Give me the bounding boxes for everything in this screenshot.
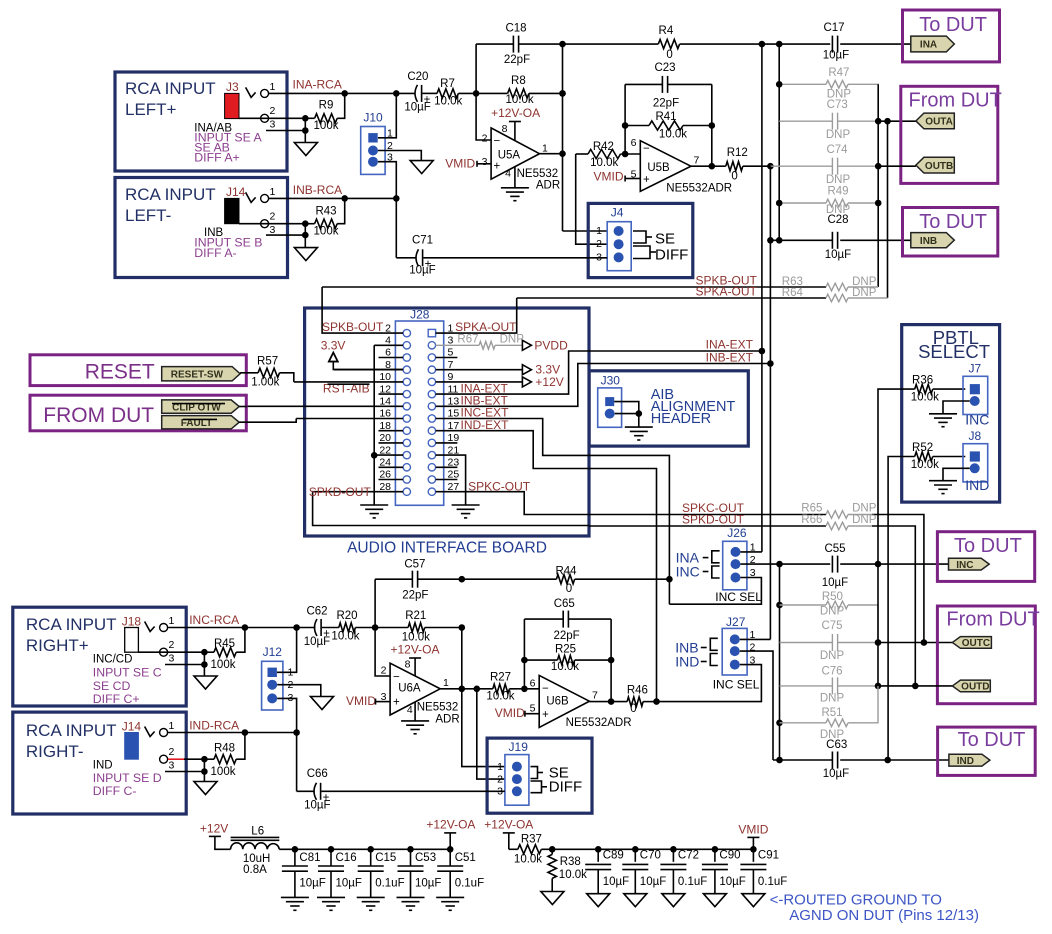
svg-text:1: 1 (596, 225, 602, 237)
capacitor C72 (672, 849, 674, 862)
svg-text:0: 0 (630, 703, 636, 715)
wire U5A output (540, 153, 563, 155)
svg-text:C18: C18 (505, 23, 526, 35)
svg-text:1: 1 (169, 720, 175, 732)
svg-text:J19: J19 (509, 740, 529, 754)
ground below R48 (194, 782, 217, 795)
J28 pin 19 stub (436, 442, 458, 444)
svg-text:0.1uF: 0.1uF (678, 876, 707, 888)
wire VMID rail (598, 848, 753, 850)
svg-text:R21: R21 (405, 610, 426, 622)
svg-text:RCA INPUT: RCA INPUT (26, 615, 117, 634)
svg-text:4: 4 (505, 167, 511, 179)
svg-text:R67: R67 (457, 333, 478, 345)
svg-text:25: 25 (448, 469, 460, 481)
svg-text:LEFT+: LEFT+ (125, 100, 177, 119)
svg-text:C71: C71 (412, 235, 433, 247)
svg-text:R49: R49 (827, 186, 848, 198)
svg-text:IND-EXT: IND-EXT (461, 418, 510, 432)
ground below R9 (294, 143, 317, 156)
svg-text:+12V: +12V (535, 375, 563, 389)
svg-text:SELECT: SELECT (918, 341, 990, 362)
svg-text:−: − (643, 143, 650, 155)
svg-text:+: + (542, 709, 549, 721)
flag INC to DUT (949, 558, 990, 570)
svg-text:24: 24 (379, 457, 391, 469)
svg-text:10µF: 10µF (415, 878, 441, 890)
svg-text:U5A: U5A (498, 150, 521, 162)
box AIB ALIGNMENT HEADER (589, 371, 748, 446)
svg-text:10.0k: 10.0k (434, 96, 462, 108)
svg-text:10.0k: 10.0k (514, 854, 542, 866)
svg-text:NE5532ADR: NE5532ADR (666, 183, 732, 195)
wire R36 down rail to C55 node (878, 389, 915, 564)
svg-text:21: 21 (448, 444, 460, 456)
svg-text:INB-EXT: INB-EXT (706, 350, 754, 364)
svg-text:DIFF A+: DIFF A+ (194, 150, 239, 164)
wire INB-RCA (269, 197, 397, 199)
svg-text:10.0k: 10.0k (551, 661, 579, 673)
svg-text:VMID: VMID (445, 156, 475, 170)
box PBTL SELECT (902, 325, 1000, 503)
svg-text:10.0k: 10.0k (486, 691, 514, 703)
svg-text:HEADER: HEADER (651, 411, 711, 427)
svg-text:0: 0 (566, 583, 572, 595)
svg-text:DNP: DNP (820, 693, 845, 705)
svg-text:IND: IND (675, 654, 699, 670)
svg-text:10µF: 10µF (299, 878, 325, 890)
svg-text:IND-RCA: IND-RCA (189, 718, 239, 732)
node R20/R21/C57 (372, 624, 379, 631)
J28 pin 26 stub (379, 479, 404, 481)
ground C72 (triangle) (662, 894, 685, 907)
svg-text:10µF: 10µF (603, 876, 629, 888)
svg-text:100k: 100k (211, 659, 236, 671)
J28 pin 22 stub (374, 454, 403, 456)
svg-text:DIFF: DIFF (549, 779, 582, 796)
svg-text:J27: J27 (726, 615, 746, 629)
J28 pin 4 stub (374, 344, 403, 346)
wire R43 node to ground (304, 224, 306, 248)
svg-text:R20: R20 (336, 610, 357, 622)
svg-text:2: 2 (497, 774, 503, 786)
svg-text:23: 23 (448, 457, 460, 469)
op-amp U6B (539, 675, 589, 727)
svg-text:INC SEL: INC SEL (715, 590, 762, 604)
net arrow PVDD (522, 340, 531, 350)
svg-text:IND: IND (957, 756, 974, 767)
J28 pin 25 stub (436, 479, 458, 481)
svg-text:2: 2 (169, 639, 175, 651)
svg-text:C17: C17 (823, 22, 844, 34)
op-amp U6A (390, 663, 440, 715)
svg-text:INPUT SE C: INPUT SE C (93, 666, 162, 680)
svg-text:2: 2 (385, 322, 391, 334)
ground right of J10 (410, 161, 433, 174)
ground J8 (929, 480, 957, 482)
wire J27 pin1 up rail C (740, 638, 771, 640)
wire INC-EXT rail to R44 node (666, 576, 673, 583)
flag FAULT (162, 416, 240, 429)
J28 pin 12 stub (379, 393, 404, 395)
svg-text:To DUT: To DUT (954, 535, 1022, 557)
rail C down to J27 pin1 (769, 364, 771, 640)
svg-text:3.3V: 3.3V (321, 339, 346, 353)
svg-text:NE5532: NE5532 (517, 168, 559, 180)
jumper bracket SE (J4) (633, 231, 646, 243)
svg-text:RCA INPUT: RCA INPUT (125, 185, 216, 204)
svg-text:10µF: 10µF (640, 876, 666, 888)
svg-text:SE: SE (655, 231, 675, 248)
jumper bracket INA (J26) (703, 557, 709, 559)
svg-text:10µF: 10µF (823, 768, 849, 780)
svg-text:C73: C73 (827, 99, 848, 111)
svg-text:17: 17 (448, 420, 460, 432)
wire R57 to J28 pin10 (280, 373, 294, 382)
svg-text:3: 3 (482, 156, 488, 168)
svg-text:To DUT: To DUT (919, 14, 987, 36)
flag CLIP_OTW (162, 400, 240, 413)
svg-text:R45: R45 (214, 638, 235, 650)
svg-text:IND: IND (93, 759, 113, 771)
svg-text:10.0k: 10.0k (911, 391, 939, 403)
svg-text:10µF: 10µF (336, 878, 362, 890)
svg-text:11: 11 (448, 383, 459, 395)
capacitor C53 (410, 849, 412, 866)
svg-text:SPKD-OUT: SPKD-OUT (682, 513, 745, 527)
svg-text:RIGHT+: RIGHT+ (26, 636, 89, 655)
svg-text:AUDIO INTERFACE BOARD: AUDIO INTERFACE BOARD (347, 540, 547, 557)
box From DUT top (901, 86, 998, 183)
ground right of J12 (311, 697, 334, 710)
svg-text:C53: C53 (415, 852, 436, 864)
svg-text:J8: J8 (969, 429, 982, 443)
capacitor C89 (597, 849, 599, 862)
svg-text:1: 1 (448, 322, 454, 334)
svg-text:DNP: DNP (852, 503, 877, 515)
svg-text:R47: R47 (828, 67, 849, 79)
svg-text:R51: R51 (821, 707, 842, 719)
rail A vertical (INA net) (761, 44, 763, 351)
svg-text:7: 7 (694, 155, 700, 167)
svg-text:4: 4 (407, 704, 413, 716)
wire out rail down (562, 44, 564, 231)
svg-text:15: 15 (448, 408, 460, 420)
J28 pin 7 stub (436, 369, 523, 371)
rail V6 (DNP right) (877, 84, 879, 287)
box To DUT (IND) (938, 727, 1036, 775)
svg-text:10.0k: 10.0k (506, 94, 534, 106)
box J4 select (588, 203, 693, 277)
ground C90 (triangle) (703, 894, 726, 907)
wire pin3 LEFT- (266, 234, 305, 236)
wire pin4 rail down to pin22 and ground (373, 345, 375, 505)
wire pin2 to R43 (239, 223, 305, 225)
svg-text:19: 19 (448, 432, 460, 444)
svg-text:INC: INC (956, 560, 973, 571)
flag OUTC from DUT (952, 637, 991, 649)
wire J12 pin1 to INC node (277, 628, 297, 673)
net arrow +12V (522, 377, 531, 387)
svg-text:INC/CD: INC/CD (93, 654, 133, 666)
svg-text:FROM DUT: FROM DUT (43, 404, 154, 427)
J28 pin 13 stub (436, 364, 771, 407)
svg-text:27: 27 (448, 481, 460, 493)
svg-text:4: 4 (385, 335, 391, 347)
wire J27 pin2 down to C63 (740, 651, 773, 760)
svg-text:10µF: 10µF (823, 50, 849, 62)
svg-text:RESET-SW: RESET-SW (171, 369, 224, 380)
svg-text:10.0k: 10.0k (331, 630, 359, 642)
wire R7 to node (458, 92, 476, 94)
svg-text:DNP: DNP (500, 333, 525, 345)
svg-text:+12V-OA: +12V-OA (491, 106, 540, 120)
svg-text:0.1uF: 0.1uF (375, 878, 404, 890)
wire U6B output (589, 701, 627, 703)
svg-text:INPUT SE D: INPUT SE D (93, 771, 162, 785)
svg-text:C16: C16 (336, 852, 357, 864)
svg-text:PVDD: PVDD (534, 338, 568, 352)
svg-text:J14: J14 (122, 719, 142, 733)
svg-text:C91: C91 (758, 850, 779, 862)
svg-text:NE5532ADR: NE5532ADR (566, 717, 632, 729)
svg-text:8: 8 (405, 659, 411, 671)
svg-text:DNP: DNP (852, 514, 877, 526)
svg-text:J28: J28 (410, 308, 430, 322)
box RCA INPUT LEFT+ (115, 72, 287, 171)
svg-text:7: 7 (448, 359, 454, 371)
svg-text:From DUT: From DUT (946, 609, 1039, 631)
J28 pin 1 stub (436, 298, 517, 333)
svg-text:R66: R66 (801, 514, 822, 526)
svg-text:To DUT: To DUT (958, 729, 1026, 751)
flag OUTB from DUT (916, 157, 954, 173)
ground C81 (281, 896, 309, 898)
svg-text:0: 0 (731, 171, 737, 183)
svg-text:OUTD: OUTD (961, 682, 989, 693)
J28 pin 24 stub (379, 466, 404, 468)
wire C57 left leg (374, 579, 376, 627)
svg-text:+: + (393, 697, 400, 709)
wire J26 pin3 loop (669, 578, 761, 605)
node C57/R44 rail (459, 576, 466, 583)
wire U6A out rail down to J19 pin1 (462, 628, 505, 767)
svg-text:8: 8 (502, 123, 508, 135)
svg-text:From DUT: From DUT (909, 90, 1002, 112)
svg-text:C81: C81 (299, 852, 320, 864)
svg-text:22pF: 22pF (653, 98, 679, 110)
svg-text:RCA INPUT: RCA INPUT (125, 79, 216, 98)
wire J27 pin3 to R46 node (657, 665, 762, 702)
jumper bracket DIFF (J19) (531, 781, 542, 793)
capacitor C15 (370, 849, 372, 866)
flag OUTA from DUT (916, 113, 954, 129)
wire C55 to INC flag (878, 563, 949, 565)
wire J12 pin3 down to IND node (277, 698, 296, 791)
wire U6A pin2 tap (375, 628, 390, 677)
flag RESET-SW (162, 367, 240, 381)
wire C65 left leg (523, 619, 525, 689)
svg-text:R37: R37 (521, 834, 542, 846)
svg-text:R8: R8 (511, 75, 526, 87)
wire C65 right leg (610, 619, 612, 702)
node rail A top (759, 41, 766, 48)
svg-text:+: + (643, 174, 650, 186)
wire OUTB line (878, 165, 916, 167)
wire pin2 to R48 (red stub) (168, 758, 184, 760)
node R8/out rail (559, 90, 566, 97)
svg-text:7: 7 (592, 690, 598, 702)
svg-text:INB-RCA: INB-RCA (293, 183, 342, 197)
wire U6A output (440, 688, 477, 690)
svg-text:C28: C28 (827, 214, 848, 226)
flag IND to DUT (949, 754, 990, 766)
svg-text:INC: INC (965, 412, 989, 428)
svg-text:NE5532: NE5532 (417, 702, 459, 714)
ground below R38 (541, 892, 564, 905)
svg-text:DIFF C+: DIFF C+ (93, 692, 140, 706)
svg-text:SPKB-OUT: SPKB-OUT (322, 320, 384, 334)
rail A down to J26 pin1 (761, 351, 763, 552)
svg-text:VMID: VMID (346, 694, 376, 708)
svg-text:R4: R4 (659, 25, 674, 37)
svg-text:−: − (542, 683, 549, 695)
wire J10 pin2 to ground (378, 151, 421, 161)
J28 pin 28 stub (313, 492, 589, 526)
svg-text:22pF: 22pF (553, 630, 579, 642)
svg-text:R27: R27 (490, 671, 511, 683)
svg-text:C55: C55 (824, 543, 845, 555)
wire IND-RCA (168, 732, 297, 734)
ground C53 (397, 896, 425, 898)
op-amp U5B (640, 141, 691, 192)
svg-text:R50: R50 (822, 591, 843, 603)
ground J30 (625, 426, 653, 428)
node junction INA-RCA/R9 (341, 90, 348, 97)
svg-text:SPKA-OUT: SPKA-OUT (455, 320, 517, 334)
svg-text:RESET: RESET (85, 361, 155, 384)
svg-text:R25: R25 (555, 644, 576, 656)
wire J10 pin3 down to INB node (378, 162, 396, 258)
svg-text:INB: INB (920, 236, 937, 247)
svg-text:20: 20 (379, 432, 391, 444)
svg-text:6: 6 (385, 347, 391, 359)
wire INA-RCA (269, 92, 416, 94)
node R46/IND-EXT (653, 698, 660, 705)
capacitor C51 (449, 849, 451, 866)
wire pin3 RIGHT+ (165, 664, 204, 666)
svg-text:6: 6 (631, 137, 637, 149)
ground C15 (357, 896, 385, 898)
svg-text:1: 1 (497, 761, 503, 773)
node R42/C23 (622, 151, 629, 158)
svg-text:0.1uF: 0.1uF (455, 878, 484, 890)
svg-text:OUTA: OUTA (925, 117, 953, 128)
svg-text:ADR: ADR (536, 179, 560, 191)
wire OUTA line (878, 120, 916, 122)
svg-text:R57: R57 (257, 355, 278, 367)
svg-text:C75: C75 (821, 620, 842, 632)
wire C66 to J19 pin3 (321, 790, 505, 792)
ground below R45 (194, 676, 217, 689)
wire J30 pin1 to pin2 join (614, 402, 639, 414)
J28 pin 6 stub (379, 357, 404, 359)
svg-text:INC: INC (676, 564, 700, 580)
box FROM DUT (30, 395, 246, 431)
box To DUT (INB) (903, 208, 998, 257)
svg-text:16: 16 (379, 408, 391, 420)
box From DUT bottom (937, 606, 1035, 704)
wire R42 tap down to J4 pin2 (576, 154, 608, 244)
svg-text:OUTB: OUTB (925, 161, 953, 172)
svg-text:DNP: DNP (826, 174, 851, 186)
svg-text:1: 1 (542, 143, 548, 155)
svg-text:J18: J18 (122, 614, 142, 628)
svg-text:10µF: 10µF (304, 636, 330, 648)
jumper bracket SE (J19) (531, 767, 538, 779)
svg-text:C15: C15 (375, 852, 396, 864)
flag INB to DUT (911, 233, 955, 248)
svg-text:J12: J12 (263, 645, 283, 659)
svg-text:C63: C63 (826, 739, 847, 751)
svg-text:OUTC: OUTC (962, 638, 990, 649)
ground U5A pin4 (501, 187, 529, 189)
svg-text:22: 22 (379, 444, 391, 456)
svg-text:0.8A: 0.8A (243, 864, 267, 876)
svg-text:VMID: VMID (495, 706, 525, 720)
svg-text:1: 1 (270, 81, 276, 93)
svg-text:C65: C65 (554, 598, 575, 610)
svg-text:DIFF: DIFF (655, 247, 688, 264)
node R7/R8/C18 (473, 90, 480, 97)
svg-text:10.0k: 10.0k (590, 157, 618, 169)
capacitor C70 (634, 849, 636, 862)
svg-text:INC SEL: INC SEL (713, 678, 760, 692)
jumper bracket INB (J27) (701, 647, 707, 649)
wire +12V rail (279, 848, 450, 850)
svg-text:22pF: 22pF (504, 54, 530, 66)
svg-text:0: 0 (666, 49, 672, 61)
svg-text:DIFF A-: DIFF A- (194, 246, 236, 260)
svg-text:J3: J3 (226, 80, 239, 94)
svg-text:J30: J30 (601, 374, 621, 388)
wire pin2 to R45 (138, 651, 204, 653)
svg-text:6: 6 (530, 677, 536, 689)
svg-text:0.1uF: 0.1uF (758, 876, 787, 888)
svg-text:28: 28 (379, 481, 391, 493)
svg-text:C90: C90 (719, 850, 740, 862)
svg-text:9: 9 (448, 371, 454, 383)
svg-text:−: − (494, 136, 501, 148)
svg-text:J10: J10 (363, 111, 383, 125)
svg-text:2: 2 (482, 133, 488, 145)
J28 pin 18 stub (379, 430, 404, 432)
rail B vertical (778, 44, 780, 240)
wire C23 right leg (711, 84, 713, 166)
node C18/R4 rail (559, 41, 566, 48)
svg-text:10µF: 10µF (304, 799, 330, 811)
svg-text:R64: R64 (782, 287, 804, 299)
wire J8 pin2 to ground (943, 468, 970, 480)
svg-text:R46: R46 (627, 685, 648, 697)
ground J28 right (452, 504, 480, 506)
svg-text:+12V-OA: +12V-OA (484, 818, 533, 832)
J28 pin 23 stub (436, 466, 458, 468)
svg-text:RCA INPUT: RCA INPUT (26, 721, 117, 740)
svg-text:SE CD: SE CD (93, 679, 131, 693)
J28 pin 9 stub (436, 381, 523, 383)
J28 pin 11 stub (436, 351, 762, 394)
